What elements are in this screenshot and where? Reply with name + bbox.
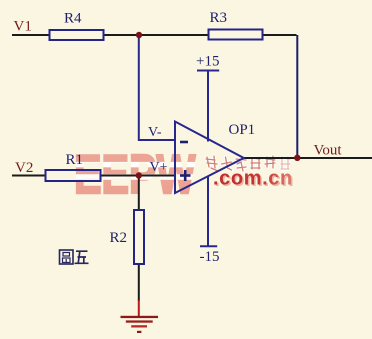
svg-text:V2: V2 xyxy=(15,160,33,176)
svg-text:V1: V1 xyxy=(14,19,32,35)
svg-text:Vout: Vout xyxy=(314,143,343,159)
svg-text:+15: +15 xyxy=(196,54,219,70)
svg-text:R1: R1 xyxy=(66,152,84,168)
svg-text:R4: R4 xyxy=(64,11,82,27)
svg-text:V+: V+ xyxy=(150,160,168,175)
svg-text:R3: R3 xyxy=(210,10,228,26)
svg-text:OP1: OP1 xyxy=(229,122,256,138)
svg-text:-15: -15 xyxy=(200,249,220,265)
svg-text:.com.cn: .com.cn xyxy=(213,168,293,190)
svg-text:V-: V- xyxy=(148,125,162,140)
svg-text:R2: R2 xyxy=(110,230,128,246)
